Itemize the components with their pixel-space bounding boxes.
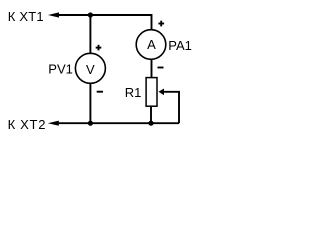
minus (voltmeter) [97, 91, 103, 93]
node junction top [88, 12, 93, 17]
resistor R1 [146, 78, 157, 107]
svg-text:PA1: PA1 [168, 38, 192, 53]
wire bottom horizontal [57, 122, 179, 124]
ammeter PA1 [136, 30, 166, 60]
wire voltmeter bottom [89, 83, 91, 123]
voltmeter PV1 [75, 53, 105, 83]
wire ammeter to resistor [151, 59, 153, 77]
svg-text:К ХТ1: К ХТ1 [8, 9, 44, 24]
wire voltmeter top [89, 15, 91, 54]
wire wiper horizontal and right vertical [163, 92, 179, 123]
node junction bottom right [148, 121, 153, 126]
wire top horizontal [57, 15, 152, 31]
plus (voltmeter) [96, 45, 102, 51]
svg-text:R1: R1 [125, 85, 142, 100]
svg-text:PV1: PV1 [48, 61, 73, 76]
plus (ammeter) [158, 21, 164, 27]
minus (ammeter) [158, 67, 164, 69]
node junction bottom left [88, 121, 93, 126]
svg-text:V: V [86, 62, 95, 77]
svg-text:К ХТ2: К ХТ2 [8, 117, 47, 132]
wiper arrow into resistor [159, 89, 165, 96]
wire resistor bottom [150, 107, 152, 123]
arrow to XT1 [48, 12, 59, 17]
svg-text:A: A [147, 37, 156, 52]
arrow to XT2 [48, 121, 59, 126]
